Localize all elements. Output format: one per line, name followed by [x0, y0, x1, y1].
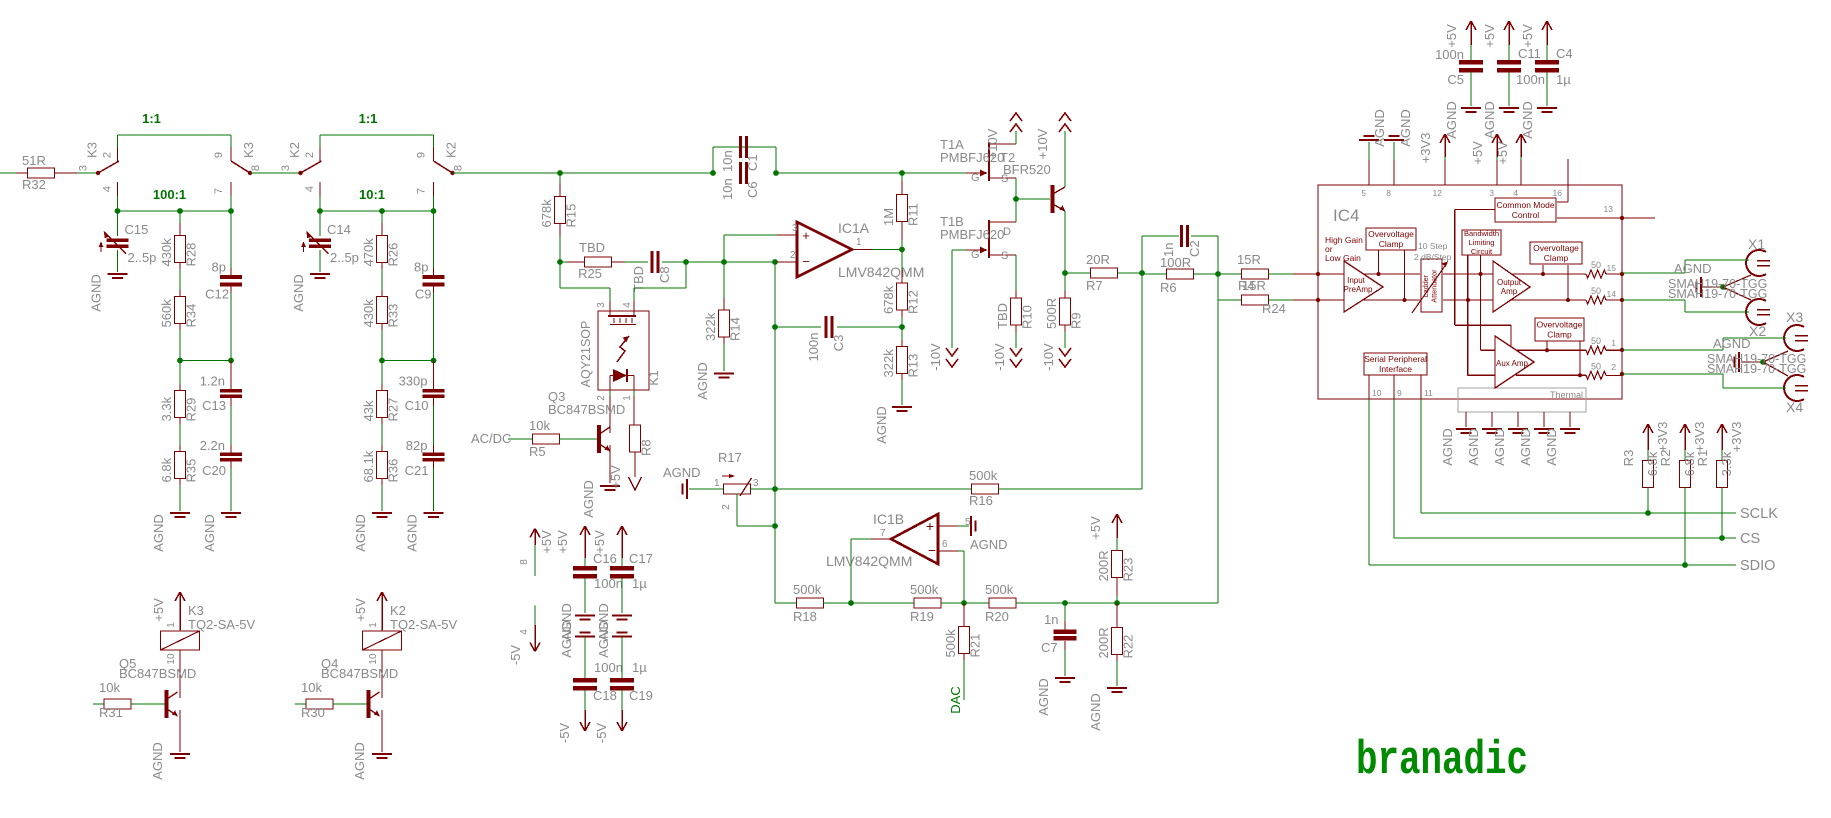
svg-text:43k: 43k — [361, 400, 376, 421]
svg-text:2..5p: 2..5p — [330, 250, 359, 265]
svg-text:SCLK: SCLK — [1740, 506, 1778, 522]
svg-text:AGND: AGND — [1674, 261, 1712, 276]
svg-text:AGND: AGND — [1518, 428, 1533, 466]
svg-text:322k: 322k — [881, 349, 896, 378]
svg-text:+5V: +5V — [151, 598, 166, 622]
svg-text:C19: C19 — [629, 688, 653, 703]
svg-text:IC1A: IC1A — [838, 220, 870, 236]
svg-text:R35: R35 — [184, 459, 199, 483]
svg-text:R9: R9 — [1069, 312, 1084, 329]
svg-text:BC847BSMD: BC847BSMD — [119, 666, 196, 681]
svg-text:R10: R10 — [1020, 305, 1035, 329]
svg-text:R16: R16 — [969, 493, 993, 508]
svg-text:322k: 322k — [703, 312, 718, 341]
svg-text:100n: 100n — [594, 660, 623, 675]
svg-text:3: 3 — [280, 165, 292, 171]
svg-text:K3: K3 — [188, 603, 204, 618]
svg-text:Low Gain: Low Gain — [1325, 253, 1361, 263]
svg-text:+10V: +10V — [1035, 128, 1050, 159]
svg-text:X4: X4 — [1786, 399, 1803, 415]
svg-text:C4: C4 — [1556, 46, 1573, 61]
svg-text:R13: R13 — [906, 354, 921, 378]
svg-text:Interface: Interface — [1379, 364, 1412, 374]
svg-text:K1: K1 — [647, 370, 661, 385]
svg-text:AQY21SOP: AQY21SOP — [579, 321, 593, 388]
svg-text:-10V: -10V — [992, 343, 1007, 371]
svg-text:2: 2 — [304, 152, 316, 158]
svg-text:LMV842QMM: LMV842QMM — [826, 553, 912, 569]
svg-text:Control: Control — [1512, 210, 1540, 220]
svg-text:3.3k: 3.3k — [159, 396, 174, 421]
svg-text:-5V: -5V — [557, 723, 572, 744]
svg-text:AGND: AGND — [1492, 428, 1507, 466]
svg-text:TQ2-SA-5V: TQ2-SA-5V — [390, 617, 458, 632]
svg-text:K3: K3 — [241, 142, 256, 158]
svg-text:X2: X2 — [1749, 323, 1766, 339]
svg-text:+5V: +5V — [539, 530, 554, 554]
svg-text:C9: C9 — [415, 287, 432, 302]
svg-text:+: + — [802, 228, 810, 243]
svg-text:+5V: +5V — [353, 598, 368, 622]
svg-text:+5V: +5V — [1495, 141, 1510, 165]
svg-text:10: 10 — [166, 653, 177, 665]
svg-text:8: 8 — [519, 559, 530, 565]
svg-text:IC1B: IC1B — [873, 511, 904, 527]
svg-text:+5V: +5V — [608, 465, 623, 489]
svg-text:7: 7 — [416, 188, 428, 194]
svg-text:330p: 330p — [399, 374, 428, 389]
svg-text:430k: 430k — [361, 299, 376, 328]
svg-text:X3: X3 — [1786, 309, 1803, 325]
svg-text:20R: 20R — [1086, 252, 1110, 267]
svg-text:AGND: AGND — [1398, 109, 1413, 147]
svg-text:3: 3 — [753, 478, 759, 489]
svg-text:R20: R20 — [985, 609, 1009, 624]
svg-text:K2: K2 — [390, 603, 406, 618]
svg-text:10 Step: 10 Step — [1418, 241, 1448, 251]
svg-text:Circuit: Circuit — [1471, 247, 1493, 256]
svg-text:3: 3 — [78, 165, 90, 171]
svg-text:R21: R21 — [968, 634, 983, 658]
svg-text:2 dB/Step: 2 dB/Step — [1414, 252, 1452, 262]
svg-text:R8: R8 — [639, 439, 654, 456]
svg-text:10n: 10n — [720, 178, 735, 200]
svg-text:AGND: AGND — [352, 742, 367, 780]
svg-text:R31: R31 — [99, 705, 123, 720]
svg-text:100n: 100n — [1435, 47, 1464, 62]
svg-text:R36: R36 — [386, 459, 401, 483]
svg-text:1.2n: 1.2n — [200, 374, 225, 389]
svg-text:C12: C12 — [205, 287, 229, 302]
svg-text:AGND: AGND — [581, 480, 596, 518]
svg-text:+3V3: +3V3 — [1729, 422, 1744, 453]
svg-text:100n: 100n — [806, 333, 821, 362]
svg-text:2: 2 — [102, 152, 114, 158]
svg-text:500R: 500R — [1044, 298, 1059, 329]
svg-text:10k: 10k — [529, 418, 550, 433]
svg-text:678k: 678k — [539, 199, 554, 228]
svg-text:8: 8 — [453, 165, 465, 171]
svg-text:Input: Input — [1347, 276, 1366, 285]
svg-text:500k: 500k — [793, 582, 822, 597]
svg-text:8: 8 — [1386, 188, 1391, 198]
svg-text:100n: 100n — [1516, 72, 1545, 87]
svg-text:Common Mode: Common Mode — [1496, 200, 1554, 210]
svg-text:R25: R25 — [578, 266, 602, 281]
svg-text:+5V: +5V — [1444, 24, 1459, 48]
svg-text:1: 1 — [368, 622, 379, 628]
svg-text:82p: 82p — [406, 438, 428, 453]
svg-text:R18: R18 — [793, 609, 817, 624]
svg-text:AGND: AGND — [353, 514, 368, 552]
svg-text:6: 6 — [942, 539, 948, 550]
svg-text:8: 8 — [250, 165, 262, 171]
svg-text:R33: R33 — [386, 304, 401, 328]
svg-text:3: 3 — [596, 302, 607, 308]
svg-text:branadic: branadic — [1356, 735, 1528, 788]
svg-text:AGND: AGND — [874, 406, 889, 444]
svg-text:+5V: +5V — [1482, 24, 1497, 48]
svg-text:100:1: 100:1 — [153, 187, 186, 202]
svg-text:560k: 560k — [159, 299, 174, 328]
svg-text:10:1: 10:1 — [359, 187, 385, 202]
svg-text:R12: R12 — [906, 290, 921, 314]
svg-text:Thermal: Thermal — [1550, 390, 1583, 400]
svg-text:4: 4 — [1513, 188, 1518, 198]
svg-text:AGND: AGND — [151, 514, 166, 552]
svg-text:SMAH19-70-TGG: SMAH19-70-TGG — [1668, 287, 1767, 301]
svg-text:8p: 8p — [414, 260, 428, 275]
svg-text:R34: R34 — [184, 304, 199, 328]
svg-text:R6: R6 — [1160, 280, 1177, 295]
svg-text:R1: R1 — [1695, 450, 1710, 467]
svg-text:4: 4 — [304, 186, 316, 192]
svg-text:AGND: AGND — [1466, 428, 1481, 466]
svg-text:500k: 500k — [985, 582, 1014, 597]
svg-text:AGND: AGND — [202, 514, 217, 552]
svg-text:+3V3: +3V3 — [1692, 422, 1707, 453]
svg-text:C15: C15 — [125, 222, 149, 237]
svg-text:1:1: 1:1 — [359, 111, 378, 126]
svg-text:2: 2 — [1611, 362, 1616, 372]
svg-text:50: 50 — [1591, 286, 1601, 296]
svg-text:200R: 200R — [1096, 627, 1111, 658]
svg-text:C17: C17 — [629, 551, 653, 566]
svg-text:678k: 678k — [881, 285, 896, 314]
svg-text:4: 4 — [622, 302, 633, 308]
svg-text:430k: 430k — [159, 238, 174, 267]
svg-text:1M: 1M — [881, 208, 896, 226]
svg-text:C6: C6 — [745, 181, 760, 198]
svg-text:+3V3: +3V3 — [1655, 422, 1670, 453]
svg-text:Output: Output — [1497, 278, 1522, 287]
svg-text:2: 2 — [596, 395, 607, 401]
svg-text:7: 7 — [213, 188, 225, 194]
svg-text:-10V: -10V — [928, 343, 943, 371]
svg-text:AGND: AGND — [89, 274, 104, 312]
svg-text:50: 50 — [1591, 361, 1601, 371]
svg-text:470k: 470k — [361, 238, 376, 267]
svg-text:14: 14 — [1607, 289, 1617, 299]
svg-text:C11: C11 — [1518, 46, 1541, 61]
svg-text:Limiting: Limiting — [1469, 238, 1495, 247]
svg-text:SDIO: SDIO — [1740, 558, 1775, 574]
svg-text:50: 50 — [1591, 260, 1601, 270]
svg-text:R22: R22 — [1121, 635, 1136, 659]
svg-text:6.8k: 6.8k — [159, 457, 174, 482]
svg-text:10n: 10n — [720, 150, 735, 172]
svg-text:Clamp: Clamp — [1547, 329, 1572, 339]
svg-text:S: S — [1001, 250, 1008, 262]
svg-text:15: 15 — [1607, 263, 1617, 273]
svg-text:51R: 51R — [22, 153, 46, 168]
svg-text:Amp: Amp — [1501, 287, 1518, 296]
svg-text:12: 12 — [1433, 188, 1443, 198]
svg-text:AGND: AGND — [559, 620, 574, 658]
svg-text:3: 3 — [792, 223, 798, 234]
svg-text:K2: K2 — [444, 142, 459, 158]
svg-text:K2: K2 — [287, 142, 302, 158]
svg-text:BC847BSMD: BC847BSMD — [321, 666, 398, 681]
svg-text:AGND: AGND — [150, 742, 165, 780]
svg-text:+3V3: +3V3 — [1418, 133, 1433, 164]
svg-text:C21: C21 — [405, 463, 429, 478]
svg-text:50: 50 — [1591, 336, 1601, 346]
svg-text:100R: 100R — [1160, 255, 1191, 270]
svg-text:500k: 500k — [910, 582, 939, 597]
svg-text:10: 10 — [368, 653, 379, 665]
svg-text:9: 9 — [1397, 388, 1402, 398]
svg-text:16: 16 — [1553, 188, 1563, 198]
svg-text:AGND: AGND — [1372, 109, 1387, 147]
svg-text:R32: R32 — [22, 177, 46, 192]
svg-text:AGND: AGND — [1482, 101, 1497, 139]
svg-text:C7: C7 — [1041, 640, 1058, 655]
svg-text:1n: 1n — [1044, 612, 1058, 627]
svg-text:2: 2 — [721, 504, 732, 510]
svg-text:2..5p: 2..5p — [128, 250, 157, 265]
svg-text:K3: K3 — [85, 142, 100, 158]
svg-text:AGND: AGND — [1544, 428, 1559, 466]
svg-text:R23: R23 — [1121, 558, 1136, 582]
svg-text:4: 4 — [519, 629, 530, 635]
svg-text:10k: 10k — [301, 680, 322, 695]
svg-text:PreAmp: PreAmp — [1344, 285, 1373, 294]
svg-text:C3: C3 — [831, 335, 846, 352]
svg-text:Clamp: Clamp — [1544, 253, 1569, 263]
svg-text:R26: R26 — [386, 243, 401, 267]
svg-text:Overvoltage: Overvoltage — [1368, 229, 1414, 239]
svg-text:AGND: AGND — [970, 537, 1008, 552]
svg-text:LMV842QMM: LMV842QMM — [838, 264, 924, 280]
svg-text:15R: 15R — [1237, 252, 1261, 267]
svg-text:9: 9 — [416, 152, 428, 158]
svg-text:2.2n: 2.2n — [200, 438, 225, 453]
svg-text:AGND: AGND — [405, 514, 420, 552]
svg-text:C8: C8 — [657, 266, 672, 283]
svg-text:Bandwidth: Bandwidth — [1464, 229, 1499, 238]
svg-text:+5V: +5V — [592, 530, 607, 554]
svg-text:AC/DC: AC/DC — [471, 431, 511, 446]
svg-text:C20: C20 — [202, 463, 226, 478]
svg-text:TQ2-SA-5V: TQ2-SA-5V — [188, 617, 256, 632]
svg-text:X1: X1 — [1748, 236, 1765, 252]
svg-text:BFR520: BFR520 — [1003, 162, 1051, 177]
svg-text:R30: R30 — [301, 705, 325, 720]
svg-text:R7: R7 — [1086, 278, 1103, 293]
svg-text:R2: R2 — [1658, 450, 1673, 467]
svg-text:1:1: 1:1 — [142, 111, 161, 126]
svg-text:C14: C14 — [327, 222, 351, 237]
svg-text:1µ: 1µ — [632, 576, 647, 591]
svg-text:R14: R14 — [728, 317, 743, 341]
svg-text:AGND: AGND — [291, 274, 306, 312]
svg-text:AGND: AGND — [1713, 336, 1751, 351]
svg-text:R5: R5 — [529, 444, 546, 459]
svg-text:1: 1 — [622, 395, 633, 401]
svg-text:Clamp: Clamp — [1379, 239, 1404, 249]
svg-text:9: 9 — [213, 152, 225, 158]
svg-text:10: 10 — [1372, 388, 1382, 398]
svg-text:DAC: DAC — [948, 686, 963, 713]
svg-text:+5V: +5V — [1520, 24, 1535, 48]
svg-text:AGND: AGND — [1520, 101, 1535, 139]
svg-text:500k: 500k — [943, 629, 958, 658]
svg-text:AGND: AGND — [1440, 428, 1455, 466]
svg-text:R19: R19 — [910, 609, 934, 624]
svg-text:-5V: -5V — [594, 723, 609, 744]
svg-text:3: 3 — [1489, 188, 1494, 198]
svg-text:+5V: +5V — [1088, 516, 1103, 540]
svg-text:500k: 500k — [969, 468, 998, 483]
svg-text:AGND: AGND — [695, 362, 710, 400]
svg-text:11: 11 — [1424, 388, 1433, 398]
svg-text:7: 7 — [880, 528, 886, 539]
svg-text:AGND: AGND — [1036, 678, 1051, 716]
svg-text:-5V: -5V — [508, 645, 523, 666]
svg-text:13: 13 — [1604, 204, 1614, 214]
svg-text:1: 1 — [1611, 338, 1616, 348]
svg-text:C13: C13 — [202, 398, 226, 413]
svg-text:−: − — [802, 254, 810, 269]
svg-text:Overvoltage: Overvoltage — [1533, 243, 1579, 253]
svg-text:SMAH19-70-TGG: SMAH19-70-TGG — [1707, 362, 1806, 376]
svg-text:Overvoltage: Overvoltage — [1537, 319, 1583, 329]
svg-text:200R: 200R — [1096, 550, 1111, 581]
svg-text:G: G — [971, 249, 980, 261]
svg-text:BC847BSMD: BC847BSMD — [548, 402, 625, 417]
svg-text:4: 4 — [102, 186, 114, 192]
svg-text:+5V: +5V — [555, 530, 570, 554]
svg-text:10k: 10k — [99, 680, 120, 695]
svg-text:PMBFJ620: PMBFJ620 — [940, 150, 1004, 165]
svg-text:Aux Amp: Aux Amp — [1496, 359, 1529, 368]
svg-text:68.1k: 68.1k — [361, 450, 376, 482]
svg-text:R3: R3 — [1621, 450, 1636, 467]
svg-text:R17: R17 — [718, 450, 742, 465]
svg-text:−: − — [928, 542, 936, 558]
svg-text:R29: R29 — [184, 398, 199, 422]
svg-text:Serial Peripheral: Serial Peripheral — [1364, 354, 1427, 364]
svg-text:R24: R24 — [1262, 301, 1286, 316]
svg-text:1: 1 — [714, 478, 720, 489]
svg-text:+: + — [926, 518, 934, 534]
svg-text:1: 1 — [856, 237, 862, 248]
svg-text:8p: 8p — [212, 260, 226, 275]
svg-text:AGND: AGND — [1088, 693, 1103, 731]
svg-text:5: 5 — [1361, 188, 1366, 198]
svg-text:PMBFJ620: PMBFJ620 — [940, 227, 1004, 242]
svg-text:1µ: 1µ — [632, 660, 647, 675]
svg-text:+5V: +5V — [1470, 141, 1485, 165]
svg-text:R11: R11 — [906, 203, 921, 226]
svg-text:3.3k: 3.3k — [1719, 451, 1734, 476]
svg-text:CS: CS — [1740, 531, 1760, 547]
svg-text:1: 1 — [166, 622, 177, 628]
svg-text:R15: R15 — [564, 204, 579, 228]
svg-text:1µ: 1µ — [1556, 72, 1571, 87]
svg-text:R28: R28 — [184, 243, 199, 267]
svg-text:15R: 15R — [1242, 278, 1266, 293]
svg-text:-10V: -10V — [1041, 343, 1056, 371]
svg-text:IC4: IC4 — [1333, 206, 1359, 225]
svg-text:C5: C5 — [1447, 72, 1464, 87]
svg-text:AGND: AGND — [663, 465, 701, 480]
svg-text:AGND: AGND — [1444, 101, 1459, 139]
svg-text:2: 2 — [790, 250, 796, 261]
svg-text:AGND: AGND — [596, 620, 611, 658]
svg-text:TBD: TBD — [579, 240, 605, 255]
svg-text:C10: C10 — [405, 398, 429, 413]
svg-text:C1: C1 — [745, 154, 760, 171]
svg-text:R27: R27 — [386, 398, 401, 422]
svg-text:G: G — [971, 172, 980, 184]
svg-text:TBD: TBD — [995, 303, 1010, 329]
